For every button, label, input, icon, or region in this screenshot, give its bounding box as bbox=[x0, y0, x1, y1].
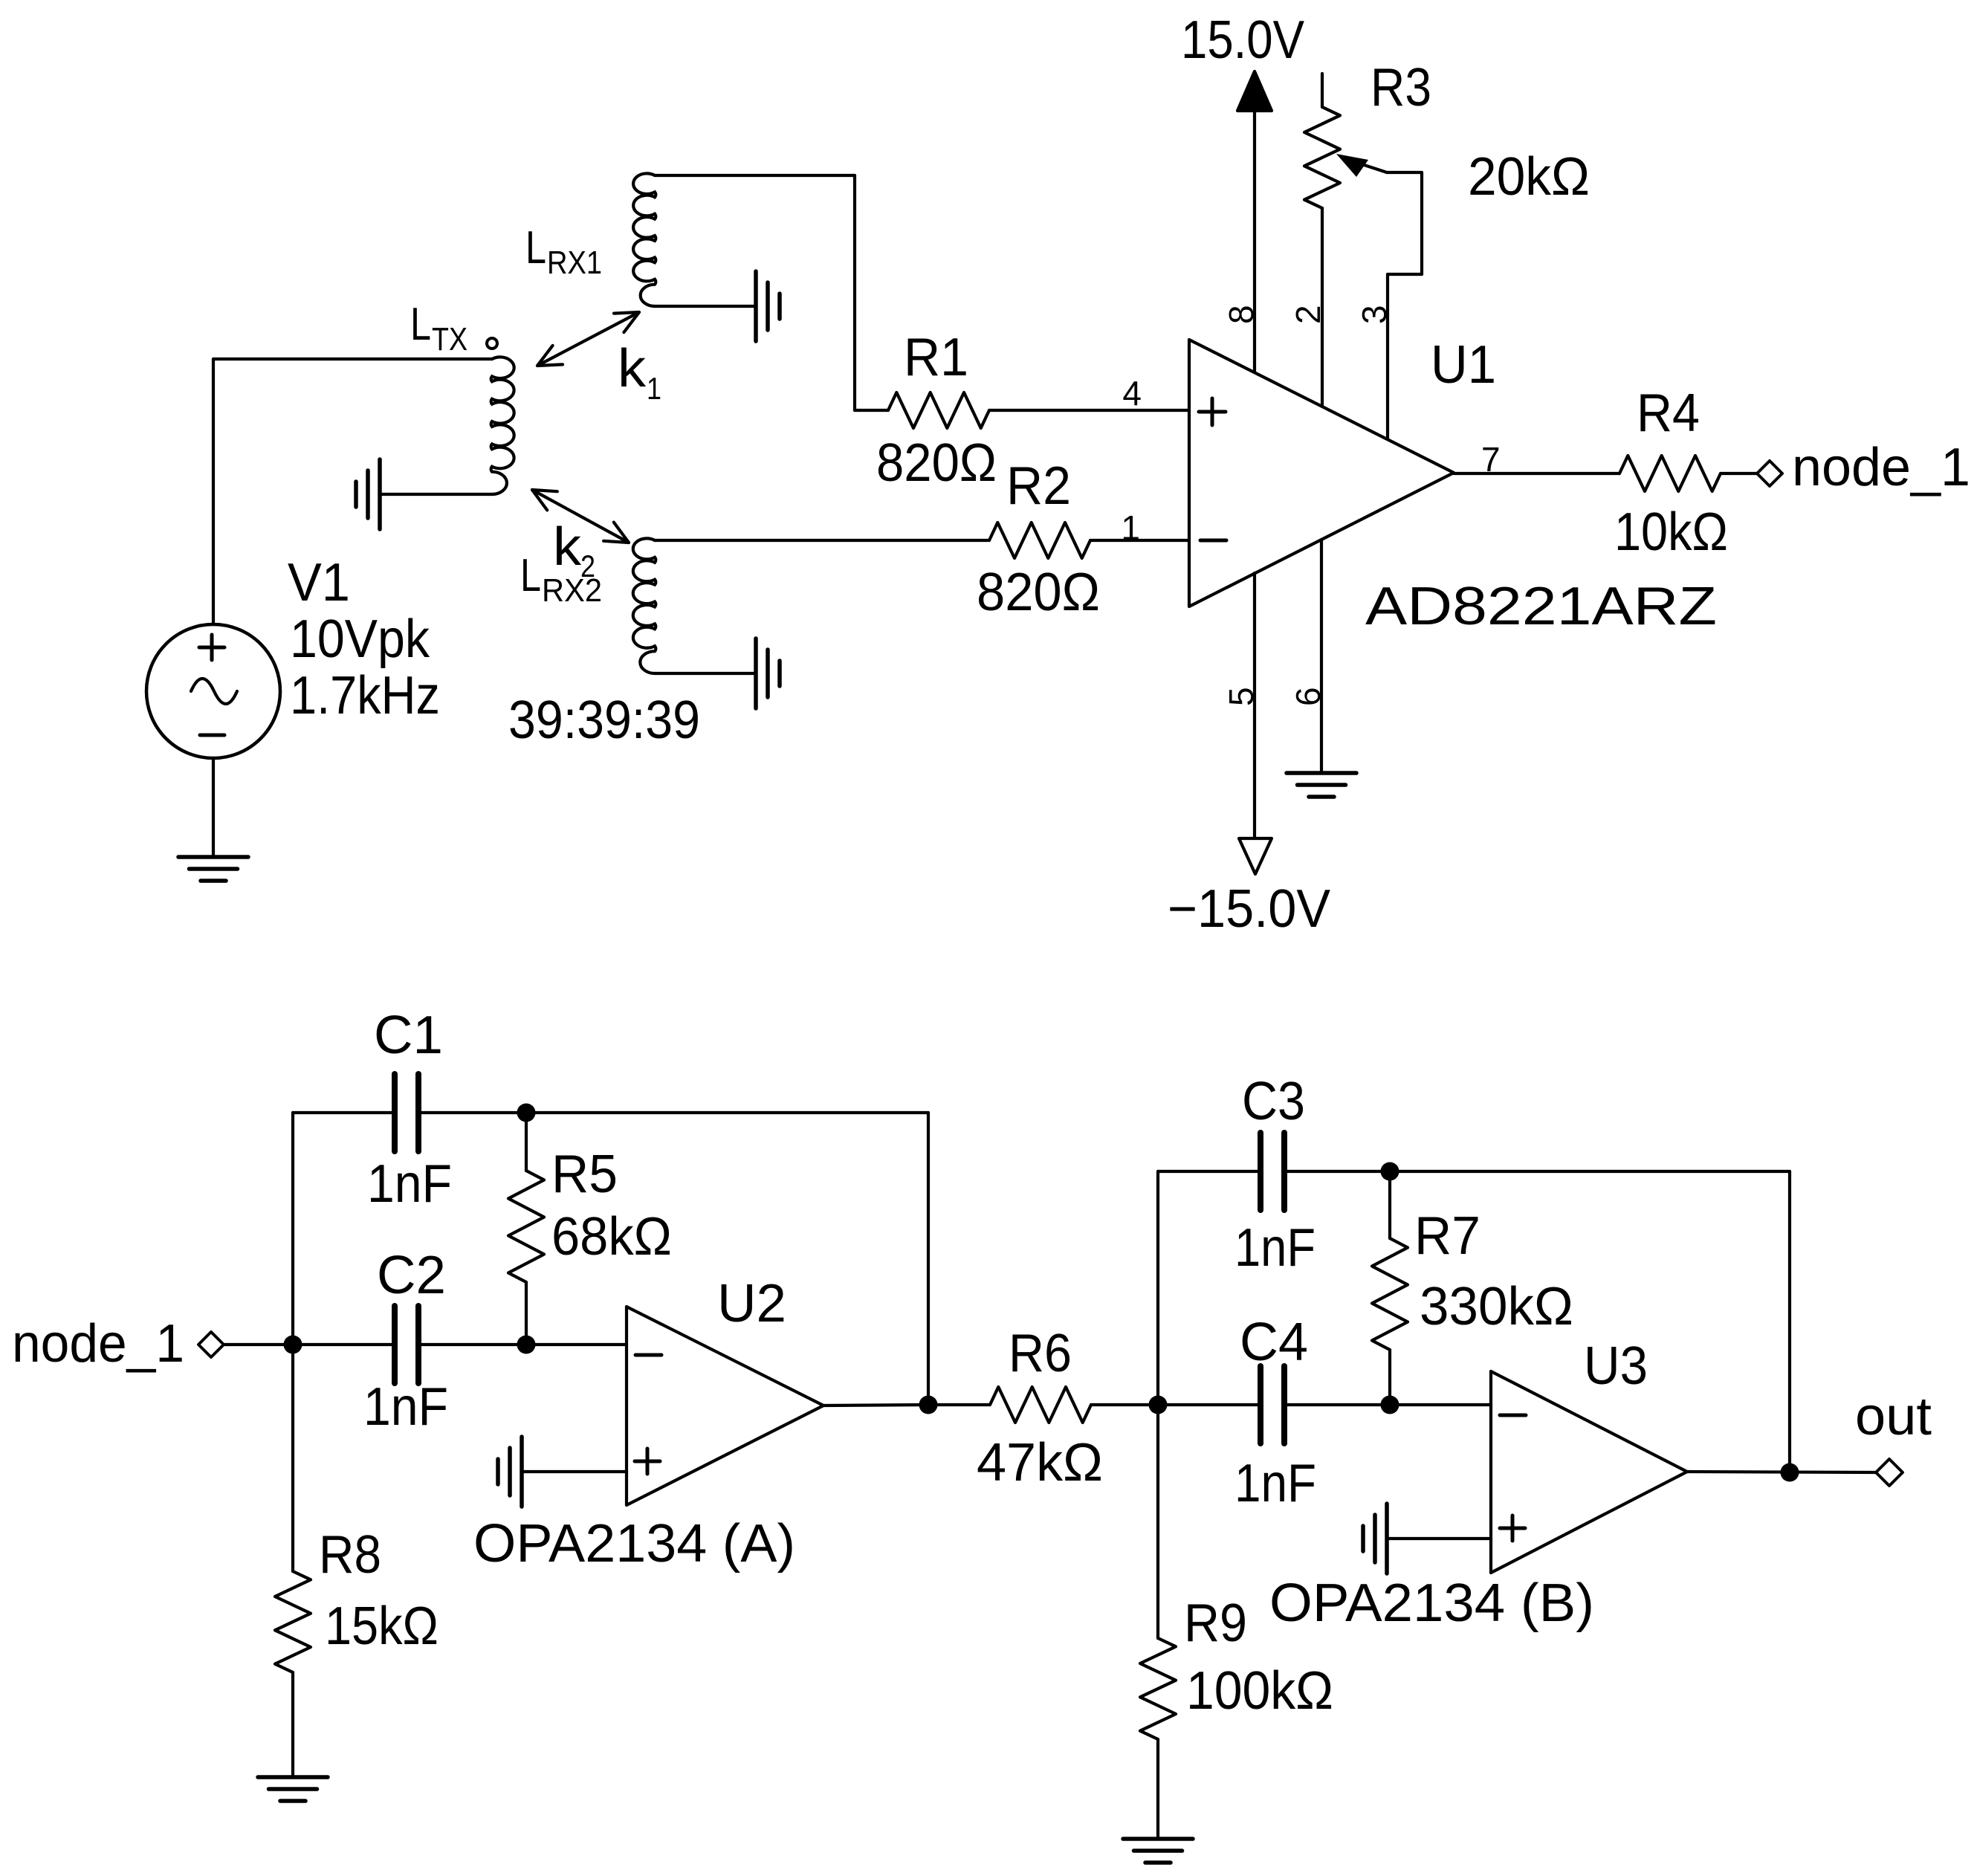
resistor R9 bbox=[1140, 1405, 1176, 1839]
svg-text:R6: R6 bbox=[1009, 1324, 1072, 1383]
svg-text:39:39:39: 39:39:39 bbox=[508, 690, 700, 750]
U2 plus input marker bbox=[635, 1449, 660, 1474]
junction dot C1-R5 bbox=[517, 1104, 536, 1122]
capacitor C1 bbox=[395, 1074, 418, 1151]
resistor R6 bbox=[928, 1387, 1158, 1423]
out diamond bbox=[1876, 1459, 1903, 1486]
svg-text:R7: R7 bbox=[1414, 1206, 1480, 1266]
svg-text:1nF: 1nF bbox=[363, 1377, 448, 1437]
wire U3 output bbox=[1687, 1472, 1876, 1472]
resistor R5 bbox=[508, 1113, 544, 1345]
label k1 bbox=[618, 339, 661, 406]
label C4 bbox=[1240, 1313, 1308, 1372]
resistor R7 bbox=[1372, 1171, 1408, 1405]
label R8 bbox=[319, 1525, 381, 1585]
ground below R8 bbox=[258, 1777, 328, 1801]
label R7 bbox=[1414, 1206, 1480, 1266]
wire C4 to U3 bbox=[1284, 1403, 1491, 1406]
node_1 diamond (bottom left) bbox=[198, 1332, 224, 1357]
wire feedback vertical stage1 bbox=[927, 1113, 930, 1405]
pin number 5 bbox=[1222, 687, 1261, 706]
wire left branch up bbox=[291, 1113, 294, 1345]
label 1.7kHz bbox=[290, 666, 440, 725]
pin 5 wire bbox=[1253, 573, 1256, 838]
svg-text:1nF: 1nF bbox=[367, 1154, 452, 1214]
pin 8 wire bbox=[1253, 111, 1256, 372]
pin 3 wire bbox=[1386, 274, 1389, 439]
svg-text:4: 4 bbox=[1122, 374, 1142, 413]
label out bbox=[1855, 1387, 1932, 1446]
label R2 bbox=[1006, 456, 1071, 516]
svg-text:100kΩ: 100kΩ bbox=[1186, 1661, 1333, 1721]
value 1nF (C1) bbox=[367, 1154, 452, 1214]
ground at LTX bottom bbox=[356, 459, 380, 529]
capacitor C4 bbox=[1261, 1366, 1284, 1443]
value 15kΩ bbox=[325, 1597, 439, 1656]
V1 sine symbol bbox=[191, 679, 237, 704]
wire LTX bottom to ground bbox=[380, 493, 492, 496]
inductor LRX1 coil bbox=[633, 173, 656, 306]
junction dot U3 output bbox=[1781, 1463, 1799, 1482]
U1 minus input marker bbox=[1200, 539, 1226, 543]
wire LRX1 bottom to ground bbox=[655, 305, 756, 308]
svg-text:5: 5 bbox=[1222, 687, 1261, 706]
ground below R9 bbox=[1123, 1839, 1193, 1863]
pin number 1 bbox=[1121, 508, 1140, 547]
label U3 bbox=[1584, 1336, 1648, 1396]
svg-text:R8: R8 bbox=[319, 1525, 381, 1585]
value 820Ω (R2) bbox=[977, 563, 1100, 622]
value 10kΩ bbox=[1614, 502, 1728, 562]
svg-text:7: 7 bbox=[1481, 440, 1501, 479]
svg-text:820Ω: 820Ω bbox=[977, 563, 1100, 622]
supply +15.0V label bbox=[1181, 10, 1304, 70]
label node_1 (top) bbox=[1792, 438, 1970, 497]
value 330kΩ bbox=[1420, 1277, 1573, 1336]
label R9 bbox=[1184, 1594, 1247, 1653]
resistor R1 bbox=[855, 392, 1189, 428]
junction dot R6-C4 bbox=[1149, 1396, 1168, 1414]
label C1 bbox=[374, 1006, 443, 1065]
wire top C1 branch bbox=[293, 1111, 395, 1114]
pin number 8 bbox=[1222, 305, 1261, 324]
wire U3 plus ground bbox=[1387, 1537, 1491, 1540]
U2 minus input marker bbox=[635, 1353, 661, 1357]
svg-text:C4: C4 bbox=[1240, 1313, 1308, 1372]
svg-text:1nF: 1nF bbox=[1234, 1218, 1316, 1278]
svg-text:R3: R3 bbox=[1371, 58, 1431, 117]
coupling arrow k2 bbox=[532, 490, 629, 543]
svg-text:1: 1 bbox=[647, 371, 661, 406]
pin number 4 bbox=[1122, 374, 1142, 413]
svg-text:1.7kHz: 1.7kHz bbox=[290, 666, 440, 725]
inductor LRX2 coil bbox=[633, 538, 656, 673]
ground below pin 6 bbox=[1287, 773, 1356, 797]
svg-text:RX2: RX2 bbox=[542, 572, 602, 609]
label R5 bbox=[551, 1145, 618, 1204]
svg-text:15kΩ: 15kΩ bbox=[325, 1597, 439, 1656]
label AD8221ARZ bbox=[1365, 577, 1717, 636]
svg-text:10Vpk: 10Vpk bbox=[290, 609, 430, 669]
resistor R2 bbox=[655, 523, 1189, 558]
ground at U2 plus bbox=[498, 1437, 522, 1507]
label OPA2134 (A) bbox=[473, 1514, 795, 1573]
value 20kΩ bbox=[1468, 147, 1590, 207]
svg-text:68kΩ: 68kΩ bbox=[551, 1207, 672, 1267]
wire left branch stage2 bbox=[1156, 1171, 1159, 1405]
pin 7 wire and resistor R4 bbox=[1454, 456, 1757, 491]
label OPA2134 (B) bbox=[1269, 1573, 1594, 1633]
junction dot node_1 bbox=[284, 1336, 302, 1354]
svg-text:V1: V1 bbox=[288, 553, 350, 612]
svg-text:R4: R4 bbox=[1637, 384, 1700, 443]
ground at LRX2 bbox=[756, 638, 780, 708]
resistor R8 bbox=[275, 1345, 311, 1777]
svg-text:47kΩ: 47kΩ bbox=[977, 1433, 1103, 1492]
svg-text:AD8221ARZ: AD8221ARZ bbox=[1365, 577, 1717, 636]
label V1 bbox=[288, 553, 350, 612]
svg-text:R1: R1 bbox=[904, 328, 968, 387]
pin number 2 bbox=[1289, 305, 1327, 324]
svg-text:8: 8 bbox=[1222, 305, 1261, 324]
value 47kΩ bbox=[977, 1433, 1103, 1492]
label LTX bbox=[410, 299, 467, 358]
svg-text:U3: U3 bbox=[1584, 1336, 1648, 1396]
wire node_1 to C2 bbox=[293, 1343, 395, 1346]
node_1 diamond (top) bbox=[1757, 461, 1782, 486]
svg-text:L: L bbox=[410, 299, 431, 350]
R3 wiper wire to pin 3 bbox=[1387, 172, 1422, 274]
svg-text:C1: C1 bbox=[374, 1006, 443, 1065]
wire node_1 to junction bbox=[224, 1343, 293, 1346]
svg-text:out: out bbox=[1855, 1387, 1932, 1446]
opamp U2 triangle bbox=[627, 1307, 823, 1505]
svg-text:1: 1 bbox=[1121, 508, 1140, 547]
svg-text:C2: C2 bbox=[377, 1246, 446, 1305]
svg-text:−15.0V: −15.0V bbox=[1168, 879, 1330, 939]
junction dot C4-R7 bbox=[1381, 1396, 1399, 1414]
transformer ratio label 39:39:39 bbox=[508, 690, 700, 750]
svg-text:R9: R9 bbox=[1184, 1594, 1247, 1653]
wire C1 to R5 junction bbox=[418, 1111, 928, 1114]
U3 plus input marker bbox=[1500, 1516, 1525, 1541]
svg-text:10kΩ: 10kΩ bbox=[1614, 502, 1728, 562]
svg-text:820Ω: 820Ω bbox=[876, 433, 997, 493]
label U1 bbox=[1431, 335, 1496, 395]
coupling arrow k1 bbox=[537, 312, 639, 366]
svg-text:C3: C3 bbox=[1242, 1072, 1305, 1131]
svg-text:2: 2 bbox=[1289, 305, 1327, 324]
supply down arrow open bbox=[1239, 838, 1272, 874]
value 1nF (C3) bbox=[1234, 1218, 1316, 1278]
value 68kΩ bbox=[551, 1207, 672, 1267]
wire V1 top to LTX bbox=[213, 359, 492, 624]
svg-text:1nF: 1nF bbox=[1234, 1454, 1316, 1513]
wire V1 bottom bbox=[212, 758, 215, 857]
pin number 7 bbox=[1481, 440, 1501, 479]
value 1nF (C4) bbox=[1234, 1454, 1316, 1513]
voltage source V1 circle bbox=[146, 624, 280, 758]
wire U2 output bbox=[823, 1405, 928, 1406]
svg-text:L: L bbox=[520, 550, 541, 601]
svg-text:U1: U1 bbox=[1431, 335, 1496, 395]
svg-text:TX: TX bbox=[432, 321, 467, 358]
pin 6 wire bbox=[1320, 540, 1323, 772]
label LRX2 bbox=[520, 550, 602, 609]
svg-text:3: 3 bbox=[1355, 305, 1394, 324]
label k2 bbox=[553, 517, 595, 583]
wire feedback vertical stage2 bbox=[1788, 1171, 1791, 1472]
pin number 6 bbox=[1289, 687, 1327, 706]
ground at U3 plus bbox=[1363, 1504, 1387, 1573]
wire LRX1 top bbox=[655, 175, 855, 410]
pin number 3 bbox=[1355, 305, 1394, 324]
label R3 bbox=[1371, 58, 1431, 117]
U3 minus input marker bbox=[1500, 1414, 1526, 1417]
junction dot U2 output bbox=[919, 1396, 938, 1414]
label R4 bbox=[1637, 384, 1700, 443]
wire top C3 branch bbox=[1158, 1170, 1261, 1173]
V1 minus marker bbox=[200, 734, 224, 737]
supply -15.0V label bbox=[1168, 879, 1330, 939]
wire C4 left bbox=[1158, 1403, 1261, 1406]
svg-text:RX1: RX1 bbox=[547, 245, 602, 281]
svg-text:330kΩ: 330kΩ bbox=[1420, 1277, 1573, 1336]
value 100kΩ bbox=[1186, 1661, 1333, 1721]
R3 wiper arrow bbox=[1336, 154, 1387, 177]
svg-text:OPA2134 (B): OPA2134 (B) bbox=[1269, 1573, 1594, 1633]
label 10Vpk bbox=[290, 609, 430, 669]
label C2 bbox=[377, 1246, 446, 1305]
value 820Ω (R1) bbox=[876, 433, 997, 493]
svg-text:U2: U2 bbox=[717, 1274, 786, 1333]
svg-text:k: k bbox=[553, 517, 582, 577]
inductor LTX coil bbox=[491, 357, 514, 494]
wire C3 to R7 junction bbox=[1284, 1170, 1790, 1173]
supply up arrow filled bbox=[1237, 71, 1272, 111]
svg-text:L: L bbox=[525, 222, 546, 274]
U1 plus input marker bbox=[1199, 398, 1226, 425]
svg-text:R5: R5 bbox=[551, 1145, 618, 1204]
svg-text:20kΩ: 20kΩ bbox=[1468, 147, 1590, 207]
svg-text:node_1: node_1 bbox=[12, 1314, 184, 1374]
opamp U3 triangle bbox=[1491, 1371, 1687, 1573]
wire LRX2 bottom to ground bbox=[655, 672, 756, 675]
label R6 bbox=[1009, 1324, 1072, 1383]
svg-text:R2: R2 bbox=[1006, 456, 1071, 516]
value 1nF (C2) bbox=[363, 1377, 448, 1437]
LTX phase dot bbox=[487, 338, 497, 349]
svg-text:node_1: node_1 bbox=[1792, 438, 1970, 497]
wire U2 plus ground bbox=[522, 1470, 627, 1473]
label R1 bbox=[904, 328, 968, 387]
ground below V1 bbox=[178, 857, 248, 881]
in-amp U1 triangle bbox=[1189, 340, 1454, 607]
label node_1 (bottom left) bbox=[12, 1314, 184, 1374]
capacitor C3 bbox=[1261, 1133, 1284, 1210]
label U2 bbox=[717, 1274, 786, 1333]
svg-text:15.0V: 15.0V bbox=[1181, 10, 1304, 70]
svg-text:k: k bbox=[618, 339, 647, 398]
junction dot C3-R7 bbox=[1381, 1162, 1399, 1181]
ground at LRX1 bbox=[756, 271, 780, 341]
svg-text:6: 6 bbox=[1289, 687, 1327, 706]
label LRX1 bbox=[525, 222, 602, 281]
wire C2 to U2 bbox=[418, 1343, 627, 1346]
V1 plus marker bbox=[199, 635, 224, 660]
svg-text:OPA2134 (A): OPA2134 (A) bbox=[473, 1514, 795, 1573]
capacitor C2 bbox=[395, 1306, 418, 1383]
resistor R3 potentiometer bbox=[1304, 74, 1340, 406]
label C3 bbox=[1242, 1072, 1305, 1131]
junction dot C2-R5 bbox=[517, 1336, 536, 1354]
